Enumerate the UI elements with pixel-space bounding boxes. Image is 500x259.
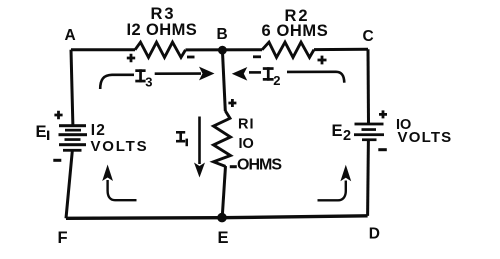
svg-text:F: F: [58, 229, 68, 247]
svg-text:A: A: [65, 27, 76, 44]
svg-text:2: 2: [273, 73, 280, 88]
svg-text:I2 OHMS: I2 OHMS: [127, 21, 198, 39]
svg-text:VOLTS: VOLTS: [91, 138, 149, 155]
svg-text:IO: IO: [239, 136, 254, 152]
svg-text:OHMS: OHMS: [237, 157, 282, 174]
svg-text:B: B: [217, 26, 228, 43]
svg-text:VOLTS: VOLTS: [398, 129, 453, 146]
svg-text:E: E: [36, 123, 47, 141]
svg-text:RI: RI: [238, 116, 255, 132]
svg-text:C: C: [363, 28, 374, 45]
svg-text:6 OHMS: 6 OHMS: [262, 22, 329, 40]
svg-text:E: E: [218, 229, 229, 247]
svg-text:2: 2: [343, 128, 351, 144]
svg-text:E: E: [332, 122, 343, 140]
svg-text:D: D: [369, 226, 380, 243]
svg-text:3: 3: [145, 74, 152, 89]
svg-text:I2: I2: [91, 122, 106, 139]
